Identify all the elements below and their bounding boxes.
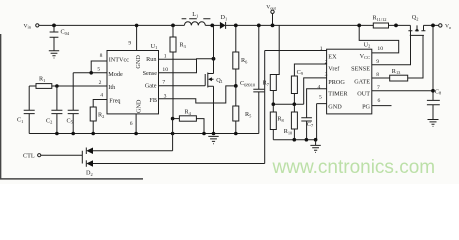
node INTVcc-Mode junction	[89, 71, 93, 75]
capacitor C04	[50, 25, 70, 50]
svg-text:8: 8	[376, 72, 379, 78]
svg-text:D2: D2	[86, 170, 93, 177]
wire bottom ground rail	[29, 133, 259, 135]
wire Vref column	[294, 64, 326, 76]
node Sense drain junction	[212, 57, 216, 61]
node Vin terminal	[24, 23, 39, 29]
svg-text:INTVcc: INTVcc	[109, 57, 130, 64]
wire GND pin5 line	[273, 103, 326, 106]
svg-text:R1: R1	[39, 76, 45, 83]
capacitor C2	[46, 86, 62, 134]
node Ith junction C2	[55, 84, 59, 88]
diode D2 upper	[86, 119, 172, 154]
node C2 rail junction	[55, 132, 59, 136]
node C7 mini rail junction	[305, 138, 309, 142]
svg-text:FB: FB	[149, 97, 157, 104]
capacitor C7	[301, 118, 314, 140]
svg-text:R5: R5	[245, 111, 252, 118]
svg-text:C7: C7	[307, 121, 314, 128]
node R2 rail junction	[91, 132, 95, 136]
svg-text:GND: GND	[328, 104, 342, 111]
svg-text:Vref: Vref	[328, 66, 340, 73]
svg-text:Sense: Sense	[143, 70, 158, 77]
svg-text:R3: R3	[180, 42, 187, 49]
node R6 rail junction	[234, 24, 238, 28]
svg-text:4: 4	[318, 84, 321, 90]
svg-text:OUT: OUT	[357, 90, 370, 97]
svg-text:C8: C8	[435, 88, 442, 95]
node GND R7R8 junction	[272, 102, 276, 106]
svg-text:R2: R2	[98, 112, 104, 119]
svg-text:U1: U1	[151, 43, 158, 50]
capacitor C9 block	[291, 69, 303, 114]
wire Mode pin5	[73, 72, 106, 74]
svg-text:TIMER: TIMER	[328, 91, 348, 98]
node C8 rail junction	[431, 24, 435, 28]
svg-text:1: 1	[320, 46, 323, 52]
transistor Q2	[408, 14, 425, 35]
svg-text:10: 10	[377, 46, 383, 52]
wire OUT pin7	[372, 25, 433, 100]
border bottom edge	[0, 178, 143, 180]
svg-text:R7: R7	[263, 80, 270, 87]
node FB divider junction	[234, 84, 238, 88]
resistor R5	[233, 86, 252, 134]
node OUT junction	[431, 89, 435, 93]
svg-text:C68910: C68910	[240, 80, 256, 87]
svg-text:EX: EX	[328, 54, 337, 61]
svg-text:Mode: Mode	[108, 71, 123, 78]
svg-text:Vo: Vo	[445, 24, 452, 30]
wire Gate pin7	[159, 85, 206, 87]
IC U2 controller box	[327, 41, 372, 114]
wire FB pin3	[159, 86, 236, 103]
wire GND ground column	[316, 104, 318, 140]
resistor R10	[284, 112, 298, 140]
node CTL riser rail crossing	[171, 132, 175, 136]
svg-text:5: 5	[319, 95, 322, 101]
svg-text:C2: C2	[46, 117, 52, 124]
svg-text:2: 2	[99, 80, 102, 86]
capacitor C5	[67, 73, 79, 134]
capacitor C1	[17, 86, 35, 134]
svg-text:9: 9	[376, 59, 379, 65]
U1 pin labels right	[143, 56, 158, 104]
svg-text:C5: C5	[67, 117, 74, 124]
transistor Q1	[205, 25, 223, 133]
resistor R11/12	[373, 15, 389, 29]
resistor R3	[170, 25, 187, 118]
U1 pin labels left	[108, 57, 129, 105]
svg-text:U2: U2	[364, 41, 371, 48]
node pin9 rail junction	[135, 24, 139, 28]
wire TIMER column	[307, 89, 327, 118]
wire PROG column	[304, 78, 327, 104]
svg-text:2: 2	[325, 60, 328, 66]
node C5 rail junction	[71, 132, 75, 136]
svg-text:www.cntronics.com: www.cntronics.com	[272, 157, 436, 178]
resistor R13	[372, 35, 423, 81]
U2 pin labels left	[328, 54, 348, 111]
svg-text:SENSE: SENSE	[351, 65, 370, 72]
svg-text:CTL: CTL	[23, 153, 35, 160]
node L1 left junction	[171, 24, 175, 28]
svg-text:6: 6	[378, 98, 381, 104]
svg-text:Q1: Q1	[216, 77, 223, 84]
resistor R7	[263, 75, 277, 113]
svg-text:GND: GND	[135, 99, 142, 113]
svg-text:C9: C9	[297, 69, 304, 76]
svg-text:9: 9	[128, 40, 131, 46]
svg-text:Q2: Q2	[412, 14, 419, 21]
ground under C04	[49, 51, 59, 58]
svg-text:C1: C1	[17, 117, 23, 124]
capacitor C68910	[240, 25, 264, 133]
svg-text:R6: R6	[241, 57, 248, 64]
svg-text:Vin: Vin	[24, 23, 32, 29]
svg-text:5: 5	[97, 66, 100, 72]
svg-text:R4: R4	[185, 109, 192, 116]
resistor R2	[90, 100, 106, 134]
svg-text:PG: PG	[362, 104, 370, 111]
node GND C9R10 junction	[293, 102, 297, 106]
svg-text:Vout: Vout	[266, 4, 276, 10]
inductor L1	[182, 11, 211, 25]
svg-text:Freq: Freq	[109, 98, 120, 105]
svg-text:3: 3	[325, 72, 328, 78]
svg-text:7: 7	[162, 79, 165, 85]
wire Sense pin10	[159, 59, 214, 73]
svg-text:7: 7	[377, 85, 380, 91]
ground under Q1 source	[208, 136, 218, 143]
U2 pin labels right	[351, 53, 370, 111]
node Vout terminal	[266, 4, 276, 25]
svg-text:D1: D1	[221, 14, 228, 21]
resistor R8	[270, 112, 284, 140]
svg-text:Ith: Ith	[108, 84, 116, 91]
border left edge	[0, 34, 2, 179]
ground under C8	[428, 120, 439, 127]
svg-text:R13: R13	[392, 68, 401, 75]
svg-text:C04: C04	[61, 29, 70, 36]
node R11 right rail junction	[394, 24, 398, 28]
resistor R4	[173, 109, 204, 134]
node R5 rail junction	[234, 132, 238, 136]
resistor R6	[233, 25, 248, 86]
U1 pin 6 wire	[130, 114, 136, 134]
svg-text:GND: GND	[135, 55, 142, 69]
diode D1	[220, 14, 227, 29]
wire main top rail	[39, 24, 439, 26]
wire SENSE pin9	[372, 31, 411, 65]
svg-text:Run: Run	[146, 56, 156, 63]
svg-text:8: 8	[100, 53, 103, 59]
wire PG pin6 stub	[372, 105, 392, 107]
svg-text:10: 10	[162, 67, 168, 73]
node gnd mini rail junction	[314, 138, 318, 142]
svg-text:GATE: GATE	[354, 79, 370, 86]
ground under mini rail	[310, 140, 320, 153]
wire INTVcc pin8	[91, 61, 106, 73]
node Vin junction	[52, 24, 56, 28]
node Vo terminal	[439, 24, 452, 30]
svg-text:4: 4	[100, 93, 103, 99]
node pin6 rail junction	[134, 132, 138, 136]
svg-text:R11/12: R11/12	[373, 15, 387, 22]
resistor R1	[29, 76, 107, 89]
wire Vcc pin10 Z path	[359, 25, 399, 53]
svg-text:Gate: Gate	[145, 82, 157, 89]
node L1 right junction	[210, 24, 214, 28]
node Vout rail junction	[271, 24, 275, 28]
svg-text:PROG: PROG	[328, 79, 345, 86]
wire CTL	[41, 151, 83, 164]
wire Run pin1	[159, 58, 198, 60]
U1 pin 9 wire	[128, 25, 136, 50]
wire EX column	[265, 25, 327, 74]
node R4 junction	[171, 117, 175, 121]
node C9 mini rail junction	[293, 138, 297, 142]
node R4 rail junction	[202, 132, 206, 136]
IC U1 switching controller box	[107, 43, 159, 114]
node Q1 source rail junction	[212, 132, 216, 136]
svg-text:R8: R8	[277, 116, 284, 123]
capacitor C8	[427, 88, 442, 119]
node R11 left rail junction	[357, 24, 361, 28]
wire mini ground rail	[273, 139, 316, 141]
node C68910 rail junction	[257, 24, 261, 28]
node CTL terminal	[23, 153, 41, 160]
svg-text:6: 6	[130, 121, 133, 127]
svg-text:L1: L1	[192, 11, 198, 18]
diode D2 lower	[86, 51, 265, 177]
